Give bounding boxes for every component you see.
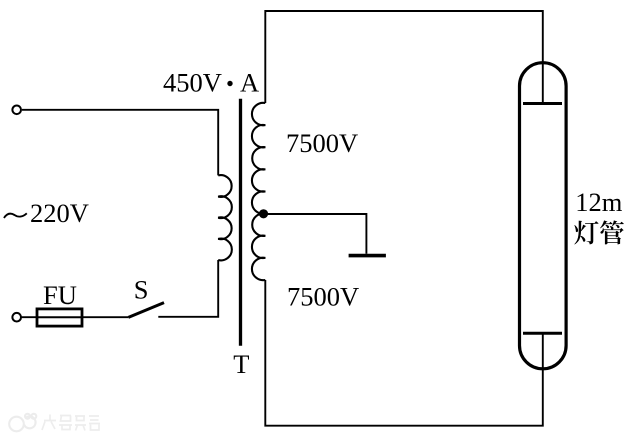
svg-text:S: S (134, 274, 149, 304)
svg-text:450V: 450V (163, 67, 222, 97)
svg-text:A: A (240, 67, 259, 97)
svg-text:220V: 220V (30, 198, 89, 228)
svg-text:7500V: 7500V (286, 128, 358, 158)
svg-text:7500V: 7500V (287, 281, 359, 311)
svg-text:FU: FU (43, 280, 77, 310)
svg-text:T: T (233, 349, 249, 379)
svg-text:12m: 12m (575, 187, 623, 217)
